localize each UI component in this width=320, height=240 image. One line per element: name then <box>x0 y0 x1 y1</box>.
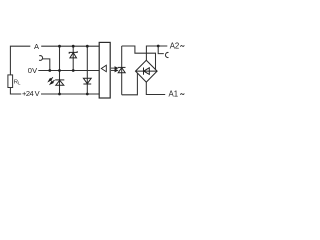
svg-text:A: A <box>34 42 39 51</box>
optocoupler light arrows <box>111 67 118 72</box>
LED arrows <box>49 77 55 84</box>
node A2 <box>157 45 160 48</box>
zener diode D2 <box>69 51 77 58</box>
node +24V / col1 <box>58 93 61 96</box>
wire A2 branch <box>146 46 167 60</box>
resistor R_L <box>8 75 13 88</box>
wire column 2 <box>72 46 74 70</box>
wire A1 branch <box>146 82 165 95</box>
wire +24V left segment <box>10 88 21 95</box>
terminal arc 0V <box>39 56 43 61</box>
tilde A2 <box>180 45 184 46</box>
wire opto loop bottom <box>122 73 138 95</box>
diode D3 <box>83 78 91 84</box>
node 0V / col1 <box>58 69 61 72</box>
bridge rectifier diamond <box>136 60 158 82</box>
wire column 1 <box>59 46 61 94</box>
node +24V / col3 <box>86 93 89 96</box>
node 0V / plug branch <box>48 69 51 72</box>
terminal arc A2 <box>165 52 168 57</box>
wire +24V rail to box <box>41 93 99 95</box>
wire 0V plug branch <box>42 59 50 71</box>
node 0V / col2 <box>72 69 75 72</box>
wire A-line to box <box>41 45 99 47</box>
svg-text:RL: RL <box>14 79 21 85</box>
node A-line / col3 <box>86 45 89 48</box>
LED D1 <box>55 80 64 85</box>
bridge internal diode <box>136 68 158 75</box>
tilde A1 <box>180 94 184 95</box>
photo diode U2 <box>118 67 126 72</box>
node A-line / col1 <box>58 45 61 48</box>
amplifier triangle <box>101 65 106 72</box>
svg-text:+24 V: +24 V <box>22 89 40 98</box>
wire column 3 <box>86 46 88 94</box>
wire input A corner <box>10 46 30 75</box>
wire A2 plug branch <box>158 46 164 54</box>
amplifier box U1 <box>99 42 110 98</box>
svg-text:0 V: 0 V <box>28 66 37 75</box>
node A-line / col2 <box>72 45 75 48</box>
svg-text:A2: A2 <box>170 42 180 51</box>
junction dots <box>48 45 159 96</box>
wire 0V rail to box <box>38 70 99 72</box>
wire phototriac column <box>121 46 123 95</box>
svg-text:A1: A1 <box>169 89 179 98</box>
wire opto loop top <box>122 46 156 70</box>
